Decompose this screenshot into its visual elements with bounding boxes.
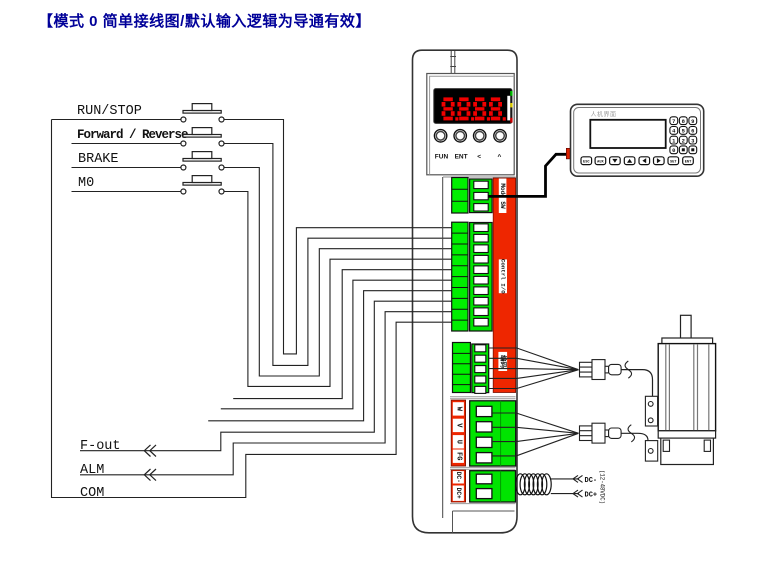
wire DC+ — [551, 493, 579, 495]
encoder cable break symbol — [625, 361, 632, 378]
motor body — [658, 344, 715, 431]
svg-text:M0: M0 — [78, 176, 94, 191]
motor power connector — [645, 441, 657, 462]
wire stub to terminal 7 — [208, 291, 452, 421]
wire stub to terminal 5 — [233, 270, 452, 399]
svg-text:6: 6 — [691, 128, 694, 135]
svg-text:AUX: AUX — [597, 160, 604, 164]
svg-text:9: 9 — [691, 118, 694, 125]
keypad body — [571, 104, 704, 176]
DC coiled cable — [516, 474, 552, 495]
svg-text:ESC: ESC — [583, 160, 590, 164]
encoder plug connector — [580, 360, 622, 380]
svg-text:DC-: DC- — [455, 472, 462, 483]
terminal block DC — [470, 471, 516, 502]
svg-text:7: 7 — [672, 118, 675, 125]
label box Mode SW — [499, 179, 507, 214]
red strip Mode SW / Contrl I/O / encoder labels — [493, 178, 515, 393]
svg-text:Contrl I/O: Contrl I/O — [499, 259, 506, 294]
encoder wires from drive — [489, 348, 579, 389]
svg-text:<: < — [477, 154, 481, 161]
switch SW4 M0 — [181, 176, 224, 194]
wire M0 left segment — [72, 191, 181, 193]
arrow chevrons on F-out wire — [144, 445, 156, 457]
switch SW3 BRAKE — [181, 152, 224, 170]
motor rear flange — [658, 431, 715, 438]
svg-text:DC+: DC+ — [455, 488, 462, 499]
label box encoder — [498, 352, 507, 371]
wire BRAKE switch to terminal 3 — [224, 168, 452, 377]
button labels — [435, 152, 502, 160]
label box Contrl I/O — [499, 259, 507, 293]
terminal block Contrl I/O pins — [470, 223, 493, 332]
separator rails — [450, 397, 516, 504]
svg-text:DC+: DC+ — [585, 492, 598, 500]
svg-text:0: 0 — [672, 147, 675, 154]
power plug connector — [580, 423, 622, 443]
svg-text:BRAKE: BRAKE — [78, 152, 119, 167]
motor rear tabs — [663, 440, 669, 451]
terminal group Mode SW green column — [452, 178, 468, 214]
svg-text:Forward / Reverse: Forward / Reverse — [77, 128, 188, 142]
svg-text:F-out: F-out — [80, 439, 121, 454]
wire RUN/STOP left segment — [52, 119, 181, 121]
encoder cable to motor — [621, 370, 652, 396]
drive front panel — [427, 74, 514, 175]
terminal group encoder green column — [453, 343, 471, 393]
wire BRAKE left segment — [72, 167, 181, 169]
wire Forward/Reverse left segment — [72, 143, 181, 145]
keypad bottom keys — [581, 157, 693, 165]
keypad cable connector (red) — [566, 148, 571, 159]
switch SW1 RUN/STOP — [181, 104, 224, 122]
power cable to motor — [621, 433, 648, 440]
red strip DC+ DC- — [451, 470, 465, 502]
svg-text:ENT: ENT — [685, 160, 692, 164]
motor power wires from drive — [492, 413, 579, 456]
terminal assembly left rail — [442, 177, 444, 518]
keypad cable (thick) — [489, 154, 567, 196]
power cable break symbol — [628, 425, 635, 442]
wire Forward/Reverse switch to terminal 2 — [224, 144, 452, 366]
svg-text:2: 2 — [682, 137, 685, 144]
motor front flange — [662, 338, 713, 344]
arrow chevrons on ALM wire — [144, 469, 156, 481]
display side indicator LEDs — [507, 96, 510, 121]
svg-text:COM: COM — [80, 486, 104, 501]
svg-text:RUN/STOP: RUN/STOP — [77, 104, 142, 119]
svg-text:(12-48VDC): (12-48VDC) — [598, 470, 605, 504]
svg-text:ENT: ENT — [455, 154, 468, 161]
motor rear housing — [661, 438, 714, 464]
wire ALM to terminal 9 — [80, 312, 452, 475]
wire DC- — [551, 478, 579, 480]
terminal block encoder pins — [472, 344, 489, 393]
svg-text:FG: FG — [454, 452, 462, 460]
terminal block Mode SW pins — [470, 179, 493, 213]
terminal group Contrl I/O green column — [452, 222, 468, 331]
red strip W V U FG — [451, 400, 465, 466]
svg-text:SET: SET — [670, 160, 677, 164]
keypad LCD screen — [590, 120, 665, 148]
arrow chevrons DC- — [573, 475, 583, 482]
drive bottom internal lines — [453, 511, 515, 533]
display bezel — [434, 89, 512, 124]
svg-text:DC-: DC- — [585, 477, 598, 485]
switch SW2 Forward/Reverse — [181, 128, 224, 146]
terminal block W V U FG — [470, 401, 516, 466]
svg-text:^: ^ — [498, 152, 502, 160]
servo drive body outline — [413, 50, 518, 533]
wire M0 switch to terminal 4 — [224, 192, 452, 387]
svg-text:U: U — [454, 440, 462, 444]
wire stub to terminal 6 — [221, 280, 452, 409]
display digits 8.8.8.8 — [442, 97, 506, 120]
keypad numeric keys — [670, 117, 697, 154]
arrow chevrons DC+ — [573, 490, 583, 497]
wire RUN/STOP switch to terminal 1 — [224, 120, 452, 354]
wire COM bus (left rail to terminal 10) — [52, 120, 452, 498]
svg-text:人机界面: 人机界面 — [591, 110, 617, 118]
motor encoder connector — [645, 396, 657, 426]
svg-text:ALM: ALM — [80, 463, 104, 478]
wire F-out to terminal 8 — [80, 301, 452, 451]
svg-text:FUN: FUN — [435, 154, 449, 161]
drive top notch — [450, 51, 456, 74]
svg-text:【模式 0 简单接线图/默认输入逻辑为导通有效】: 【模式 0 简单接线图/默认输入逻辑为导通有效】 — [38, 12, 371, 30]
panel buttons FUN ENT < ^ — [434, 130, 506, 142]
motor shaft — [681, 315, 692, 338]
svg-text:编码: 编码 — [499, 355, 508, 369]
